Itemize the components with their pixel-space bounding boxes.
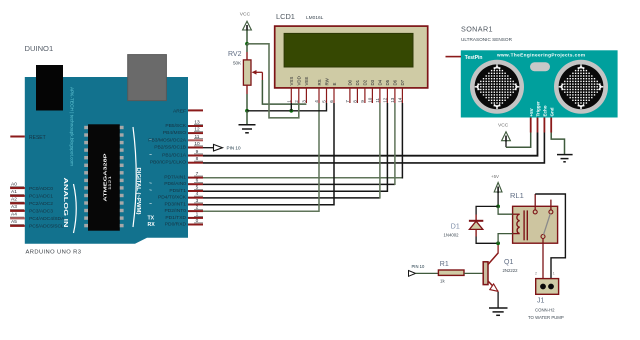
svg-text:PB4/MISO: PB4/MISO: [163, 130, 186, 136]
svg-text:RW: RW: [324, 77, 329, 85]
digital pin 1 terminal: [165, 211, 203, 221]
digital pin 5 terminal: [149, 185, 203, 195]
svg-text:RESET: RESET: [29, 135, 46, 141]
wire arduino pin3 to LCD E: [203, 103, 334, 205]
RESET pin label and stub: [10, 135, 45, 141]
svg-text:11: 11: [375, 98, 380, 103]
LCD pin 1 VSS: [287, 77, 295, 103]
node A0 analog pin terminal: [10, 181, 53, 191]
svg-text:Echo: Echo: [543, 105, 548, 116]
svg-text:PC5/ADC5/SCL: PC5/ADC5/SCL: [29, 224, 64, 230]
svg-text:D3: D3: [370, 79, 375, 85]
node A1 analog pin terminal: [10, 189, 53, 199]
svg-text:VCC: VCC: [498, 123, 509, 129]
microcontroller chip label ATMEGA328P: [103, 154, 112, 202]
svg-text:PC4/ADC4/SDA: PC4/ADC4/SDA: [29, 216, 65, 222]
svg-text:1N4002: 1N4002: [444, 233, 460, 238]
relay RL1 coil: [517, 210, 527, 240]
node A3 analog pin terminal: [10, 204, 53, 214]
svg-text:PD5/T1: PD5/T1: [169, 188, 186, 194]
svg-text:RX: RX: [148, 222, 156, 228]
svg-text:PD0/RXD: PD0/RXD: [165, 222, 187, 228]
relay RL1 body: [513, 206, 558, 243]
LCD pin 10 D3: [368, 79, 376, 103]
LCD pin 6 E: [329, 83, 337, 104]
wire arduino pin5 to LCD D5: [203, 103, 387, 191]
svg-text:50K: 50K: [233, 61, 242, 66]
sonar SONAR1 reference label: [461, 25, 513, 43]
ground symbol at sonar: [557, 155, 573, 162]
svg-text:Trigger: Trigger: [536, 101, 541, 117]
LCD pin 3 VEE: [302, 77, 310, 103]
node A4 analog pin terminal: [10, 212, 65, 222]
svg-text:ULTRASONIC SENSOR: ULTRASONIC SENSOR: [461, 37, 513, 42]
wire R1 to Q1 base: [464, 272, 483, 274]
junction VCC node: [245, 42, 249, 46]
connector J1 labels: [528, 298, 564, 321]
svg-text:PD1/TXD: PD1/TXD: [165, 215, 186, 221]
svg-text:PD4/T0/XCK: PD4/T0/XCK: [158, 195, 187, 201]
svg-text:~: ~: [149, 188, 152, 194]
svg-text:D2: D2: [363, 79, 368, 85]
svg-text:14: 14: [398, 97, 403, 103]
LCD pin 2 VDD: [294, 76, 302, 103]
LCD pin 8 D1: [353, 79, 361, 103]
svg-text:8: 8: [353, 100, 358, 103]
svg-text:5: 5: [322, 100, 327, 103]
svg-text:Gnd: Gnd: [549, 107, 554, 116]
svg-text:D4: D4: [378, 79, 383, 85]
svg-text:R1: R1: [440, 261, 449, 268]
svg-text:~: ~: [149, 153, 152, 159]
ground symbol below RV2: [239, 111, 256, 133]
svg-text:PC2/ADC2: PC2/ADC2: [29, 201, 53, 207]
junction +5V node: [496, 205, 500, 209]
LCD pin 13 D6: [390, 79, 398, 103]
wire sonar TestPin stub: [446, 56, 462, 58]
power VCC symbol at sonar: [502, 132, 511, 148]
wire pin10 to PIN 10 terminal: [203, 147, 214, 149]
digital header bracket: [133, 127, 136, 227]
wire D1 anode to collector node: [476, 237, 498, 244]
svg-text:~: ~: [149, 181, 152, 187]
wire sonar +5V pin to VCC: [506, 133, 531, 148]
svg-text:TO WATER PUMP: TO WATER PUMP: [528, 315, 564, 320]
LCD LCD1 reference label: [276, 12, 324, 21]
microcontroller U1 ATMEGA328P chip body: [88, 124, 120, 230]
LCD pin 12 D5: [383, 79, 391, 103]
sonar SONAR1 board: [461, 50, 618, 117]
svg-text:PC1/ADC1: PC1/ADC1: [29, 194, 53, 200]
PIN 10 input terminal arrow: [409, 271, 416, 277]
svg-text:PB5/SCK: PB5/SCK: [165, 123, 186, 129]
svg-text:DUINO1: DUINO1: [25, 44, 54, 53]
svg-text:SONAR1: SONAR1: [461, 25, 493, 34]
svg-text:RS: RS: [317, 79, 322, 85]
svg-text:3: 3: [302, 100, 307, 103]
svg-text:1: 1: [287, 100, 292, 103]
wire +5V node to D1 cathode: [476, 206, 498, 214]
wire ground rail to LCD VSS and RW: [247, 103, 327, 111]
junction VSS ground node: [289, 109, 293, 113]
digital pin 12 terminal: [163, 127, 203, 137]
svg-text:CONN-H2: CONN-H2: [535, 307, 555, 312]
svg-text:www.TheEngineeringProjects.com: www.TheEngineeringProjects.com: [496, 52, 585, 57]
svg-text:PIN 10: PIN 10: [412, 264, 425, 269]
digital pin 6 terminal: [149, 178, 203, 188]
wire relay switched contact to J1 pin1: [542, 239, 544, 279]
svg-text:PB0/ICP1/CLKO: PB0/ICP1/CLKO: [150, 160, 186, 166]
svg-text:D5: D5: [385, 79, 390, 85]
svg-text:D1: D1: [355, 79, 360, 85]
svg-text:E: E: [332, 83, 337, 86]
sonar pin Echo: [543, 105, 548, 132]
svg-text:TestPin: TestPin: [465, 55, 483, 61]
sonar pin +5V: [529, 108, 534, 132]
svg-text:PD7/AIN1: PD7/AIN1: [164, 175, 186, 181]
sonar pin Gnd: [549, 107, 554, 132]
wire Q1 emitter to ground: [497, 292, 499, 308]
wire LCD VSS down to ground rail: [290, 103, 292, 111]
svg-text:+5V: +5V: [529, 108, 534, 116]
svg-text:Q1: Q1: [504, 259, 513, 266]
LCD pin 5 RW: [322, 77, 330, 103]
svg-text:~: ~: [149, 202, 152, 208]
digital pin 10 terminal: [154, 141, 203, 151]
svg-text:D0: D0: [348, 79, 353, 85]
digital pin 13 terminal: [165, 120, 203, 130]
svg-text:2N2222: 2N2222: [503, 268, 519, 273]
svg-text:10: 10: [368, 97, 373, 103]
wire relay common contact to J1 pin2: [535, 194, 565, 279]
LCD pin 4 RS: [314, 79, 322, 103]
potentiometer RV2 reference label: [228, 51, 242, 66]
sonar pin Trigger: [536, 101, 541, 133]
LCD LCD1 screen: [284, 33, 413, 67]
analog in header bracket: [74, 184, 77, 233]
wire +5V node to coil top: [498, 206, 519, 214]
power +5V symbol: [494, 183, 502, 207]
ground symbol below Q1: [489, 308, 508, 315]
svg-text:PC0/ADC0: PC0/ADC0: [29, 186, 53, 192]
svg-text:1: 1: [553, 272, 555, 276]
svg-text:PD3/INT1: PD3/INT1: [165, 202, 187, 208]
arduino power jack: [36, 65, 63, 111]
digital pin 4 terminal: [158, 191, 203, 201]
wire VCC to LCD VDD: [247, 44, 299, 118]
svg-text:ARDUINO UNO R3: ARDUINO UNO R3: [26, 250, 82, 256]
svg-text:12: 12: [383, 97, 388, 103]
resistor R1 labels: [440, 261, 449, 284]
transistor Q1 labels: [503, 259, 519, 273]
diode D1 labels: [444, 224, 460, 238]
LCD pin 9 D2: [360, 79, 368, 103]
connector J1 body: [536, 279, 559, 295]
digital pin 11 terminal: [148, 134, 203, 144]
wire PIN10 terminal to R1: [416, 272, 439, 274]
svg-text:9: 9: [360, 100, 365, 103]
sonar right transducer: [554, 60, 608, 114]
svg-text:APK-TECH | technoapk.blogspot.: APK-TECH | technoapk.blogspot.com: [69, 87, 74, 166]
wire RV2 bottom to ground rail: [246, 94, 248, 111]
svg-text:VEE: VEE: [304, 77, 309, 86]
PIN 10 output terminal arrow: [214, 144, 223, 151]
svg-text:D1: D1: [451, 224, 460, 231]
diode D1 body: [469, 215, 483, 237]
power VCC symbol: [243, 21, 252, 44]
svg-text:PC3/ADC3: PC3/ADC3: [29, 209, 53, 215]
sonar oscillator blob: [530, 62, 550, 71]
svg-text:RV2: RV2: [228, 51, 242, 58]
LCD pin 11 D4: [375, 79, 383, 103]
wire RV2 wiper to LCD VEE: [262, 80, 306, 104]
svg-text:PB1/OC1A: PB1/OC1A: [162, 153, 187, 159]
wire coil bottom to collector node: [498, 234, 519, 244]
junction RV2 bottom node: [245, 109, 249, 113]
svg-text:D7: D7: [400, 79, 405, 85]
svg-text:13: 13: [390, 97, 395, 103]
wire arduino pin9 to sonar Trigger: [203, 133, 538, 156]
wire sonar Gnd to ground: [551, 133, 564, 155]
microcontroller chip legs: [84, 126, 123, 227]
arduino DUINO1 board body: [25, 77, 188, 244]
wire VCC to RV2 top: [246, 44, 248, 52]
svg-text:7: 7: [345, 100, 350, 103]
digital pin 9 terminal: [149, 149, 203, 159]
AREF pin stub: [173, 108, 203, 114]
svg-text:PB2/SS/OC1B: PB2/SS/OC1B: [154, 145, 186, 151]
connector J1 pin number marks: [535, 272, 555, 276]
LCD pin 7 D0: [345, 79, 353, 103]
svg-text:AREF: AREF: [173, 108, 186, 114]
svg-text:2: 2: [535, 272, 537, 276]
relay NC contact stub: [550, 200, 552, 210]
svg-text:6: 6: [329, 100, 334, 103]
transistor Q1 body: [483, 253, 498, 292]
wire arduino pin4 to LCD D4: [203, 197, 380, 199]
node A5 analog pin terminal: [10, 219, 64, 229]
junction collector node: [496, 241, 500, 245]
svg-text:D6: D6: [393, 79, 398, 85]
digital pin 8 terminal: [150, 156, 203, 166]
svg-text:PIN 10: PIN 10: [227, 146, 241, 151]
digital pin 0 terminal: [165, 218, 203, 228]
wire arduino pin6 to LCD D6: [203, 183, 395, 185]
svg-text:RL1: RL1: [510, 191, 524, 200]
svg-text:VCC: VCC: [240, 12, 251, 18]
svg-text:1k: 1k: [440, 279, 445, 284]
node A2 analog pin terminal: [10, 197, 53, 207]
wire Q1 collector up to coil node: [497, 243, 499, 253]
svg-text:DIGITAL (~PWM): DIGITAL (~PWM): [135, 168, 141, 215]
svg-text:4: 4: [314, 100, 319, 103]
resistor R1 body: [438, 270, 464, 275]
svg-text:PB3/MOSI/OC2A: PB3/MOSI/OC2A: [148, 137, 187, 143]
wire arduino pin7 to LCD D7: [203, 177, 402, 179]
sonar left transducer: [470, 60, 524, 114]
potentiometer RV2 wiper arrow: [252, 70, 263, 80]
svg-text:PD2/INT0: PD2/INT0: [165, 208, 187, 214]
wire arduino pin2 to LCD RS: [203, 103, 319, 211]
arduino USB connector: [128, 55, 167, 101]
svg-text:PD6/AIN0: PD6/AIN0: [164, 181, 186, 187]
digital pin 7 terminal: [164, 171, 203, 181]
svg-text:+5V: +5V: [491, 174, 499, 179]
svg-text:1121: 1121: [108, 176, 112, 190]
svg-text:VDD: VDD: [297, 76, 302, 85]
wire arduino pin8 to sonar Echo: [203, 133, 544, 163]
svg-text:2: 2: [294, 100, 299, 103]
potentiometer RV2 body: [243, 52, 251, 94]
relay RL1 switch contacts: [533, 210, 553, 239]
LCD pin 14 D7: [398, 79, 406, 103]
svg-text:VSS: VSS: [289, 77, 294, 86]
svg-text:LCD1: LCD1: [276, 12, 295, 21]
svg-text:TX: TX: [148, 215, 155, 221]
svg-text:J1: J1: [537, 298, 545, 305]
digital pin 2 terminal: [165, 205, 203, 215]
digital pin 3 terminal: [149, 198, 203, 208]
LCD LCD1 body: [275, 26, 428, 88]
svg-text:LM016L: LM016L: [306, 15, 324, 21]
